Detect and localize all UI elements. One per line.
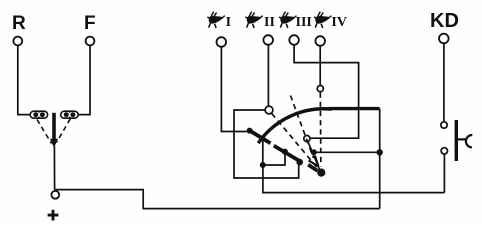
selector lever shaft (thick arrow down) <box>52 113 56 141</box>
wire R down <box>18 45 31 114</box>
+ terminal circle <box>51 191 59 199</box>
rotary switch arc <box>258 109 380 144</box>
pivot node <box>317 169 325 177</box>
contact circle II position <box>265 106 273 114</box>
wire F down <box>78 45 90 114</box>
pushbutton actuator bar <box>455 120 458 161</box>
dashed position line from R plug <box>37 120 52 144</box>
terminal KD circle <box>439 34 449 44</box>
dashed position line from F plug <box>57 119 71 143</box>
wiper stub at pivot <box>308 165 317 171</box>
wire + bus left segment <box>55 190 380 209</box>
wire pushbutton down <box>443 154 445 193</box>
node contact to battery <box>311 149 317 155</box>
wiper bar 2 <box>274 146 301 162</box>
wire node to bar2 <box>263 153 285 165</box>
wire arc corner down right <box>379 109 381 209</box>
node junction riser <box>377 149 383 155</box>
wire IV down <box>319 46 321 86</box>
+ label <box>48 210 59 221</box>
svg-text:III: III <box>296 15 312 30</box>
hare icon speed IV <box>314 12 332 28</box>
svg-text:KD: KD <box>430 10 459 32</box>
pushbutton lower contact <box>441 148 447 154</box>
hare icon speed II <box>245 12 263 28</box>
connector contact right (F winding plug) <box>61 111 78 118</box>
wire I to wiper-root <box>221 47 246 132</box>
hare icon speed I <box>207 12 225 28</box>
connector contact left (R winding plug) <box>30 111 47 118</box>
hare icon speed III <box>279 12 297 28</box>
dashed radial to II contact <box>272 114 318 168</box>
pushbutton knob <box>458 135 472 147</box>
wire II down <box>267 45 269 106</box>
node wiper root <box>247 128 253 134</box>
arrow head on lever <box>309 156 319 167</box>
terminal III circle <box>289 35 299 45</box>
solid radial III-contact to pivot <box>308 142 320 170</box>
wire KD down <box>443 43 445 121</box>
contact circle III position <box>304 136 310 142</box>
dashed radial to IV contact <box>319 93 322 167</box>
node bar2 end <box>296 159 303 166</box>
node on bar2 <box>282 149 288 155</box>
node lower-left <box>260 162 266 168</box>
svg-text:R: R <box>12 13 26 34</box>
svg-text:F: F <box>84 13 96 34</box>
terminal IV circle <box>315 36 325 46</box>
contact circle IV position <box>317 86 323 92</box>
terminal II circle <box>263 35 273 45</box>
svg-text:I: I <box>226 15 231 30</box>
pushbutton upper contact <box>441 122 447 128</box>
dashed radial arrow line <box>291 96 314 159</box>
svg-text:II: II <box>264 15 275 30</box>
terminal I circle <box>217 37 227 47</box>
wire box around switch <box>234 110 299 178</box>
terminal R circle <box>13 37 22 46</box>
wire contact to right riser <box>314 151 380 153</box>
wire from bar crossing down <box>262 140 264 166</box>
svg-text:IV: IV <box>331 15 347 30</box>
terminal F circle <box>86 37 95 46</box>
wire node down to bottom bus <box>263 165 445 193</box>
wiper bar 1 <box>250 131 271 144</box>
wire III route <box>294 45 359 138</box>
wire lever to + terminal <box>53 146 55 190</box>
